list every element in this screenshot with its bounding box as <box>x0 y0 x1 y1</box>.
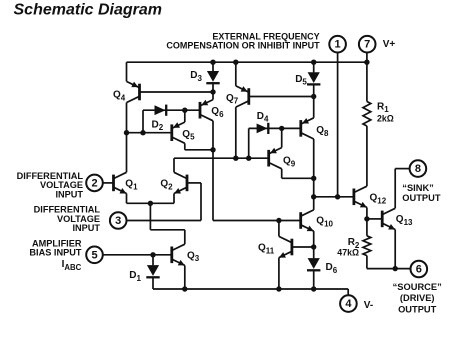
svg-text:D6: D6 <box>326 262 338 275</box>
svg-text:INPUT: INPUT <box>72 223 100 233</box>
svg-text:Q13: Q13 <box>396 214 413 227</box>
svg-text:Q6: Q6 <box>211 106 224 119</box>
svg-text:Q12: Q12 <box>370 193 387 206</box>
svg-text:“SOURCE”: “SOURCE” <box>393 282 442 292</box>
svg-text:6: 6 <box>416 264 422 276</box>
svg-text:“SINK”: “SINK” <box>402 183 434 193</box>
svg-text:D4: D4 <box>257 111 269 124</box>
svg-text:2: 2 <box>91 177 97 189</box>
svg-text:Q7: Q7 <box>226 93 239 106</box>
svg-text:OUTPUT: OUTPUT <box>398 304 437 314</box>
svg-text:Schematic Diagram: Schematic Diagram <box>14 2 163 19</box>
svg-text:8: 8 <box>415 163 421 175</box>
svg-text:Q11: Q11 <box>258 243 275 256</box>
svg-text:BIAS INPUT: BIAS INPUT <box>29 248 81 258</box>
svg-text:2kΩ: 2kΩ <box>377 113 394 123</box>
svg-text:OUTPUT: OUTPUT <box>402 193 441 203</box>
svg-text:D3: D3 <box>190 70 202 83</box>
svg-text:7: 7 <box>364 39 370 51</box>
svg-text:Q1: Q1 <box>125 179 138 192</box>
svg-text:Q9: Q9 <box>283 156 296 169</box>
svg-text:5: 5 <box>91 249 97 261</box>
svg-text:D1: D1 <box>129 270 141 283</box>
svg-text:Q8: Q8 <box>316 125 329 138</box>
svg-text:V+: V+ <box>383 39 396 50</box>
svg-text:INPUT: INPUT <box>55 190 83 200</box>
svg-text:Q10: Q10 <box>316 216 333 229</box>
svg-text:Q3: Q3 <box>187 250 200 263</box>
svg-text:4: 4 <box>345 298 352 310</box>
svg-text:R1: R1 <box>377 101 389 114</box>
svg-text:COMPENSATION OR INHIBIT INPUT: COMPENSATION OR INHIBIT INPUT <box>166 41 320 51</box>
svg-text:D5: D5 <box>295 74 307 87</box>
svg-text:3: 3 <box>115 215 121 227</box>
svg-text:Q4: Q4 <box>113 90 126 103</box>
svg-text:IABC: IABC <box>62 259 82 272</box>
svg-text:1: 1 <box>335 39 341 51</box>
svg-text:47kΩ: 47kΩ <box>337 247 359 257</box>
svg-text:D2: D2 <box>152 119 164 132</box>
svg-text:V-: V- <box>364 300 373 311</box>
svg-text:(DRIVE): (DRIVE) <box>400 293 435 303</box>
svg-text:Q5: Q5 <box>182 129 195 142</box>
svg-text:Q2: Q2 <box>160 179 173 192</box>
